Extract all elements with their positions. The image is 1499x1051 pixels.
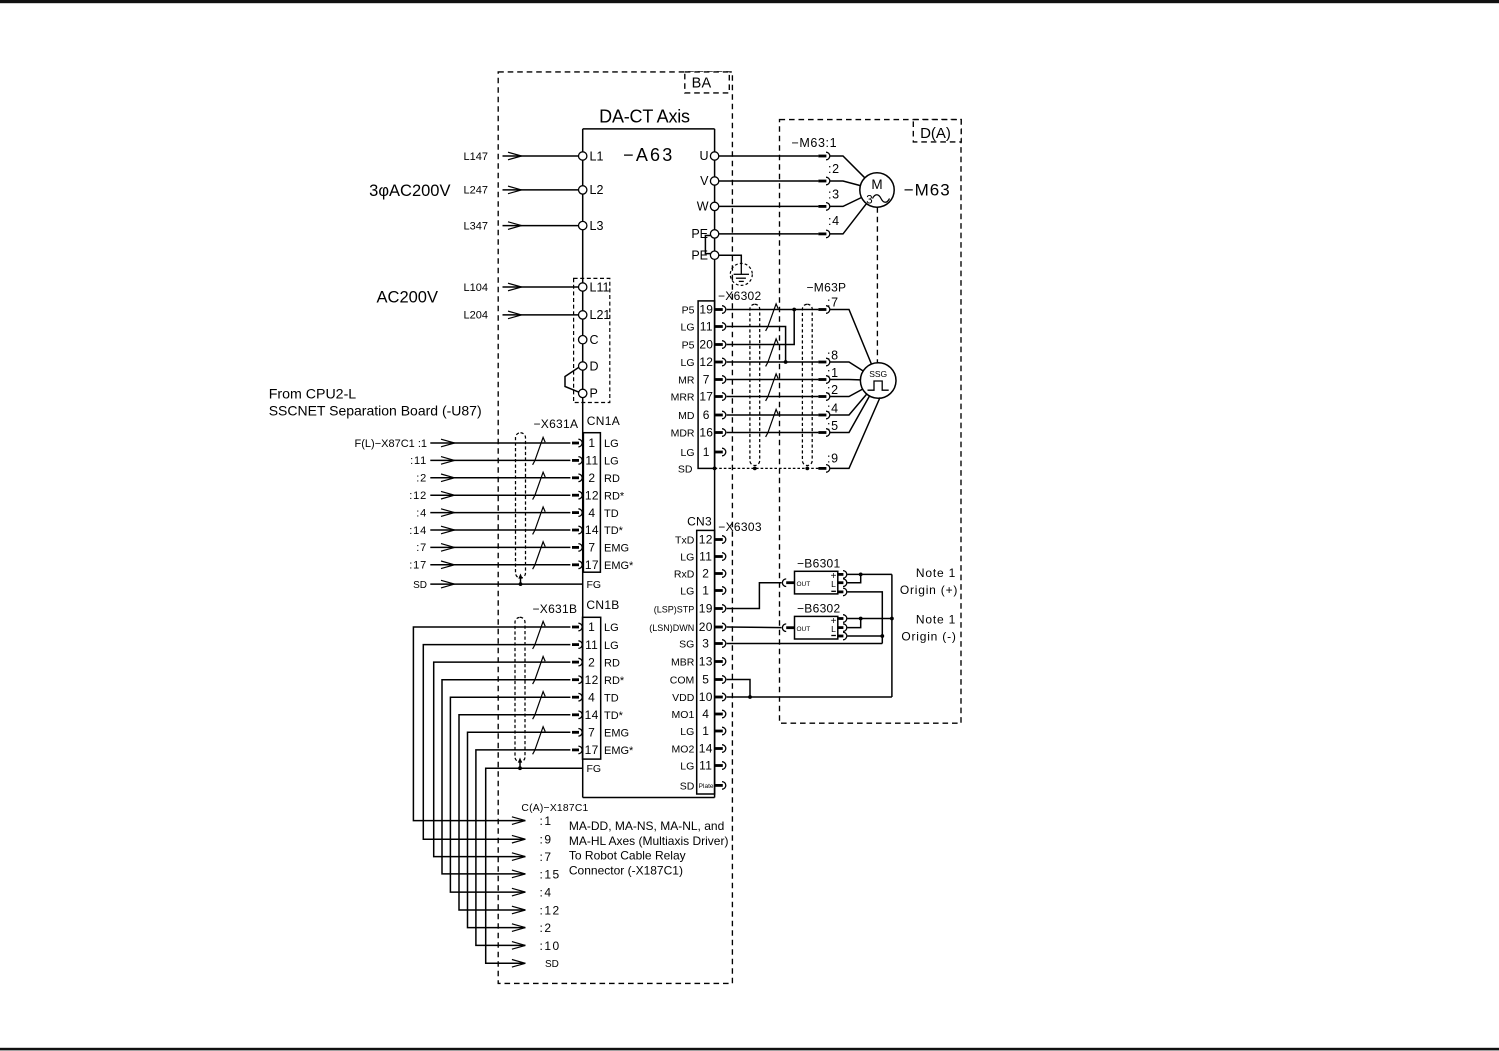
arrowhead relay :10 xyxy=(512,942,526,950)
svg-text:SD: SD xyxy=(545,959,559,970)
svg-text:LG: LG xyxy=(680,761,694,773)
pin number X6303 2 xyxy=(702,567,709,581)
arrowhead L347 xyxy=(508,222,522,230)
twisted pair mark X6302 #2 xyxy=(766,339,779,367)
connector CN1A pin 4 xyxy=(572,509,582,517)
motor label 3 xyxy=(866,195,872,207)
svg-text:LG: LG xyxy=(680,726,694,738)
wire CN1B pin 1 to relay :1 xyxy=(413,627,570,821)
connector X6303 pin 11 xyxy=(715,762,726,770)
label Note 1 (upper) xyxy=(916,566,956,580)
wire motor plug :4 to motor xyxy=(830,204,867,234)
connector X6303 pin 10 xyxy=(715,693,726,701)
label SD input (CN1A) xyxy=(413,580,427,591)
svg-text:2: 2 xyxy=(702,567,709,581)
label motor :4 xyxy=(828,214,840,228)
svg-text:TD: TD xyxy=(604,692,619,704)
svg-text:6: 6 xyxy=(703,408,710,422)
connector X6303 pin 1 xyxy=(715,587,726,595)
pin number CN1B 11 xyxy=(585,638,598,652)
svg-text:COM: COM xyxy=(670,675,695,687)
svg-text:19: 19 xyxy=(699,602,713,616)
arrowhead CN1A :14 xyxy=(441,526,455,534)
ground (protective earth) symbol xyxy=(730,263,752,285)
wire CN1B pin 14 to relay :12 xyxy=(459,715,570,910)
svg-text::9: :9 xyxy=(540,833,553,847)
enclosure D(A) label box xyxy=(913,120,961,142)
wire CN1A pin 17 input xyxy=(430,564,570,566)
label encoder :9 xyxy=(827,451,839,465)
svg-text:−M63P: −M63P xyxy=(807,281,847,295)
pin name X6303 (LSN)DWN xyxy=(649,623,694,633)
connector X6303 pin 1 xyxy=(715,727,726,735)
connector X6302 pin 16 xyxy=(715,429,726,437)
svg-text:12: 12 xyxy=(585,673,599,687)
svg-text:LG: LG xyxy=(680,357,694,369)
pin number X6303 11 xyxy=(699,550,712,564)
terminal U xyxy=(699,149,718,163)
pin number X6303 14 xyxy=(699,742,713,756)
label FG (CN1B) xyxy=(587,763,602,775)
connector X6303 pin 3 xyxy=(715,640,726,648)
pin name X6303 MO1 xyxy=(672,709,695,721)
pin number CN1A 7 xyxy=(588,541,595,555)
svg-text:−X631A: −X631A xyxy=(533,417,578,431)
motor tilde xyxy=(873,195,890,203)
label DA-CT Axis xyxy=(599,107,690,127)
connector X6302 pin 7 xyxy=(715,376,726,384)
svg-text:(LSP)STP: (LSP)STP xyxy=(654,605,695,615)
connector CN1A pin 1 xyxy=(572,439,582,447)
shield CN1B drain to FG xyxy=(518,758,522,771)
svg-text:SD: SD xyxy=(413,580,427,591)
pin name X6302 P5 xyxy=(682,305,695,317)
pin number CN1B 12 xyxy=(585,673,599,687)
wire MRR 17 to encoder :2 xyxy=(727,396,819,398)
connector CN1B pin 2 xyxy=(572,658,582,666)
svg-text:U: U xyxy=(699,149,708,163)
label source :14 xyxy=(409,525,427,537)
pin number CN1A 1 xyxy=(588,436,595,450)
terminal L3 xyxy=(579,219,604,233)
wire CN1A pin 1 input xyxy=(430,442,570,444)
svg-text:4: 4 xyxy=(588,690,595,704)
arrowhead CN1A :12 xyxy=(441,491,455,499)
connector X6302 pin 20 xyxy=(715,341,726,349)
pin number X6302 12 xyxy=(699,355,713,369)
pin number X6303 1 xyxy=(702,584,709,598)
label motor :2 xyxy=(828,162,840,176)
connector B6301 + xyxy=(838,571,847,579)
svg-text:P5: P5 xyxy=(682,340,695,352)
connector X6303 pin 4 xyxy=(715,710,726,718)
arrowhead relay :7 xyxy=(512,853,526,861)
label L347 xyxy=(464,220,488,232)
svg-text::12: :12 xyxy=(540,903,561,917)
arrowhead relay :1 xyxy=(512,817,526,825)
svg-text:EMG*: EMG* xyxy=(604,745,634,757)
wire encoder plug :4 to SSG xyxy=(830,394,867,415)
sensor B6301 pin L label xyxy=(831,579,836,589)
arrowhead relay SD xyxy=(512,960,526,968)
connector X6303 box xyxy=(697,530,715,794)
arrowhead L204 xyxy=(508,311,522,319)
wire P5 20 join xyxy=(727,310,795,345)
pin name CN1B TD xyxy=(604,692,619,704)
label L104 xyxy=(464,282,488,294)
pin name CN1A EMG xyxy=(604,543,629,555)
pin number CN1B 4 xyxy=(588,690,595,704)
sensor B6302 box xyxy=(795,616,838,639)
label Origin (-) xyxy=(901,630,956,644)
svg-text:7: 7 xyxy=(588,541,595,555)
wire CN1A pin 14 input xyxy=(430,529,570,531)
svg-text:MBR: MBR xyxy=(671,657,695,669)
svg-text:4: 4 xyxy=(588,506,595,520)
enclosure BA label box xyxy=(685,72,730,93)
svg-text::4: :4 xyxy=(828,214,840,228)
arrowhead CN1A :17 xyxy=(441,561,455,569)
wire B6301 L to + xyxy=(847,574,861,582)
label relay :7 xyxy=(540,850,553,864)
pin number X6303 11 xyxy=(699,759,712,773)
svg-text:1: 1 xyxy=(703,445,710,459)
svg-text:−A63: −A63 xyxy=(623,145,674,165)
arrowhead CN1A :2 xyxy=(441,474,455,482)
pin name X6302 LG xyxy=(680,322,694,334)
svg-text:2: 2 xyxy=(588,655,595,669)
terminal L21 xyxy=(579,308,611,322)
svg-text:MA-HL Axes (Multiaxis Driver): MA-HL Axes (Multiaxis Driver) xyxy=(569,834,729,848)
encoder label SSG xyxy=(869,369,887,379)
svg-text:1: 1 xyxy=(588,436,595,450)
shield CN1A drain to FG xyxy=(518,574,522,586)
svg-text:RxD: RxD xyxy=(674,569,695,581)
svg-text::7: :7 xyxy=(827,296,839,310)
label source :2 xyxy=(416,473,427,485)
wire U to motor :1 xyxy=(719,155,819,157)
pin name CN1B LG xyxy=(604,640,619,652)
svg-text:LG: LG xyxy=(680,322,694,334)
terminal L11 xyxy=(579,280,610,294)
label C(A)-X187C1 xyxy=(521,803,588,814)
svg-text:MO2: MO2 xyxy=(672,744,695,756)
svg-text:Note 1: Note 1 xyxy=(916,566,956,580)
svg-text:LG: LG xyxy=(680,586,694,598)
svg-text:17: 17 xyxy=(585,743,599,757)
svg-text:C: C xyxy=(590,333,599,347)
wire V to motor :2 xyxy=(719,180,819,182)
arrowhead relay :15 xyxy=(512,870,526,878)
svg-text:RD: RD xyxy=(604,473,620,485)
svg-text:OUT: OUT xyxy=(797,626,811,633)
connector CN1B box xyxy=(583,617,601,759)
svg-text:20: 20 xyxy=(699,620,713,634)
svg-text:CN1A: CN1A xyxy=(587,414,620,428)
arrowhead CN1A :11 xyxy=(441,457,455,465)
terminal L1 xyxy=(579,149,604,163)
pin number X6302 17 xyxy=(699,390,713,404)
sensor B6302 pin - label xyxy=(831,635,836,637)
label encoder :2 xyxy=(827,383,839,397)
wire CN1B pin 12 to relay :15 xyxy=(442,680,570,874)
pin name CN1B EMG xyxy=(604,728,629,740)
wire CN1B pin 4 to relay :4 xyxy=(450,697,570,892)
motor M63 circle xyxy=(860,173,894,207)
svg-text:MA-DD, MA-NS, MA-NL, and: MA-DD, MA-NS, MA-NL, and xyxy=(569,819,724,833)
sensor -B6301 label xyxy=(797,557,841,571)
pin name CN1A EMG* xyxy=(604,560,634,572)
svg-text:−M63:1: −M63:1 xyxy=(792,136,838,150)
svg-text::2: :2 xyxy=(416,473,427,485)
wire power input L247 xyxy=(503,189,579,191)
dashed box control-power terminals L11-P xyxy=(574,278,610,402)
svg-text:(LSN)DWN: (LSN)DWN xyxy=(649,623,694,633)
label relay :1 xyxy=(540,814,553,828)
svg-text:LG: LG xyxy=(604,456,619,468)
wire PE lower to ground xyxy=(719,255,742,263)
svg-text:Origin (-): Origin (-) xyxy=(901,630,956,644)
svg-text:C(A)−X187C1: C(A)−X187C1 xyxy=(521,803,588,814)
wire power input L147 xyxy=(503,155,579,157)
svg-text:−X6302: −X6302 xyxy=(718,289,762,303)
svg-text:L21: L21 xyxy=(590,308,611,322)
svg-text:12: 12 xyxy=(699,533,713,547)
pin name X6302 MRR xyxy=(671,392,695,404)
pin name CN1B LG xyxy=(604,622,619,634)
wire VDD riser to sensors + xyxy=(891,574,893,697)
svg-text:−X6303: −X6303 xyxy=(718,520,762,534)
svg-text:1: 1 xyxy=(702,724,709,738)
pin name X6303 COM xyxy=(670,675,695,687)
svg-text:RD*: RD* xyxy=(604,675,625,687)
svg-text:12: 12 xyxy=(585,488,599,502)
arrowhead CN1A F(L)−X87C1 :1 xyxy=(441,439,455,447)
svg-text:L247: L247 xyxy=(464,185,488,197)
svg-text:TxD: TxD xyxy=(675,535,695,547)
pin name X6303 RxD xyxy=(674,569,695,581)
connector X6303 pin 19 xyxy=(715,605,726,613)
pin name X6303 (LSP)STP xyxy=(654,605,695,615)
svg-text::17: :17 xyxy=(409,560,427,572)
label source F(L)−X87C1 :1 xyxy=(355,438,427,450)
pin name X6303 LG xyxy=(680,726,694,738)
shield X6302 cable inner xyxy=(750,304,760,465)
svg-text:EMG: EMG xyxy=(604,728,629,740)
terminal L2 xyxy=(579,183,604,197)
connector -X6302 label xyxy=(718,289,762,303)
svg-text:11: 11 xyxy=(585,638,598,652)
svg-text:2: 2 xyxy=(588,471,595,485)
wire CN1B pin 11 to relay :9 xyxy=(423,645,570,840)
connector X6302 pin 6 xyxy=(715,411,726,419)
wire CN1B pin 17 to relay :10 xyxy=(476,750,571,946)
connector CN1A pin 11 xyxy=(572,457,582,465)
wire B6301 + net xyxy=(847,573,892,577)
connector CN3 label xyxy=(687,515,712,529)
jumper wire D-P xyxy=(565,367,579,392)
pin number CN1B 14 xyxy=(585,708,599,722)
svg-text:13: 13 xyxy=(699,655,713,669)
svg-text:MD: MD xyxy=(678,410,695,422)
svg-text::11: :11 xyxy=(410,455,427,467)
twisted pair mark CN1B TD/TD* xyxy=(533,692,546,720)
pin name CN1A LG xyxy=(604,456,619,468)
twisted pair mark X6302 #3 xyxy=(766,374,779,401)
svg-text:11: 11 xyxy=(699,759,712,773)
shield CN1A cable xyxy=(516,433,526,578)
svg-text:L204: L204 xyxy=(464,310,488,322)
connector CN1B pin 1 xyxy=(572,623,582,631)
pin name X6302 MR xyxy=(678,375,695,387)
twisted pair mark CN1A EMG/EMG* xyxy=(533,542,546,569)
svg-text:TD*: TD* xyxy=(604,525,624,537)
sensor B6301 pin - label xyxy=(831,590,836,592)
pin name CN1A TD* xyxy=(604,525,624,537)
wire STP 19 to B6301 xyxy=(727,583,782,609)
terminal PE upper xyxy=(691,227,718,241)
wire SD to FG (CN1A) xyxy=(430,583,582,585)
svg-text:F(L)−X87C1 :1: F(L)−X87C1 :1 xyxy=(355,438,427,450)
label encoder :1 xyxy=(827,366,839,380)
svg-text:FG: FG xyxy=(587,763,602,775)
wire COM 5 to VDD xyxy=(727,680,752,699)
svg-text:14: 14 xyxy=(585,523,599,537)
svg-text:OUT: OUT xyxy=(797,581,811,588)
pin name X6302 MDR xyxy=(671,428,695,440)
twisted pair mark CN1B LG/LG xyxy=(533,621,546,649)
svg-text:AC200V: AC200V xyxy=(377,289,438,307)
arrowhead L247 xyxy=(508,186,522,194)
connector X6302 pin 17 xyxy=(715,393,726,401)
label AC200V xyxy=(377,289,438,307)
twisted pair mark CN1B RD/RD* xyxy=(533,657,546,685)
svg-text:MDR: MDR xyxy=(671,428,695,440)
pin number X6302 11 xyxy=(700,320,713,334)
wire B6302 + net xyxy=(847,617,894,621)
sensor B6301 OUT label xyxy=(797,581,811,588)
svg-text:V: V xyxy=(700,174,709,188)
svg-text:3: 3 xyxy=(702,637,709,651)
wire encoder plug :8 to SSG xyxy=(830,362,863,371)
svg-text::8: :8 xyxy=(827,349,839,363)
pin name CN1B TD* xyxy=(604,710,624,722)
wire B6302 L to + xyxy=(847,619,861,628)
wire MD 6 to encoder :4 xyxy=(727,414,819,416)
svg-text:Note 1: Note 1 xyxy=(916,613,956,627)
connector -X631A label xyxy=(533,417,578,431)
connector CN1A pin 7 xyxy=(572,544,582,552)
svg-text::4: :4 xyxy=(416,507,427,519)
label 3phAC200V xyxy=(369,182,450,200)
svg-text:3φAC200V: 3φAC200V xyxy=(369,182,450,200)
pin label Plate xyxy=(699,783,714,790)
svg-text::1: :1 xyxy=(540,814,553,828)
connector X6302 pin 1 xyxy=(715,448,726,456)
svg-text:FG: FG xyxy=(587,579,602,591)
wire power input L347 xyxy=(503,225,579,227)
pin name CN1A RD xyxy=(604,473,620,485)
connector X6303 pin 20 xyxy=(715,623,726,631)
arrowhead CN1A :7 xyxy=(441,544,455,552)
wire CN1B pin 2 to relay :7 xyxy=(434,662,571,857)
connector motor :4 xyxy=(818,230,829,238)
svg-text:L3: L3 xyxy=(590,219,604,233)
svg-text:Plate: Plate xyxy=(699,783,714,790)
wire CN1A pin 7 input xyxy=(430,546,570,548)
wire SD shield (dashed) xyxy=(713,467,819,471)
label FG (CN1A) xyxy=(587,579,602,591)
label Note 1 (lower) xyxy=(916,613,956,627)
connector encoder :9 xyxy=(818,465,829,473)
pin name X6303 LG xyxy=(680,761,694,773)
svg-text:MRR: MRR xyxy=(671,392,695,404)
twisted pair mark X6302 #4 xyxy=(766,409,779,437)
pin name CN1A TD xyxy=(604,508,619,520)
svg-text:MR: MR xyxy=(678,375,695,387)
wire MR 7 to encoder :1 xyxy=(727,379,819,381)
wire encoder plug :7 to SSG xyxy=(830,310,872,365)
connector CN1A pin 14 xyxy=(572,526,582,534)
svg-text:19: 19 xyxy=(699,303,713,317)
label source :17 xyxy=(409,560,427,572)
svg-text::1: :1 xyxy=(827,366,839,380)
wire P5 19 to encoder :7 xyxy=(727,308,819,312)
pin name X6302 MD xyxy=(678,410,695,422)
wire power input L104 xyxy=(503,286,579,288)
connector X6302 pin 11 xyxy=(715,323,726,331)
svg-text:LG: LG xyxy=(604,438,619,450)
encoder pulse symbol xyxy=(868,381,889,390)
pin number X6303 12 xyxy=(699,533,713,547)
svg-text:1: 1 xyxy=(588,620,595,634)
pin number CN1A 12 xyxy=(585,488,599,502)
label -M63P xyxy=(807,281,847,295)
svg-text:LG: LG xyxy=(604,622,619,634)
connector X6303 pin 2 xyxy=(715,570,726,578)
svg-text:CN3: CN3 xyxy=(687,515,712,529)
wire encoder plug :2 to SSG xyxy=(830,389,863,396)
connector B6301 L xyxy=(838,579,847,587)
label encoder :4 xyxy=(827,402,839,416)
svg-text:VDD: VDD xyxy=(672,692,695,704)
connector CN1B label xyxy=(586,598,619,612)
pin name X6303 TxD xyxy=(675,535,695,547)
pin name X6303 MBR xyxy=(671,657,695,669)
connector motor :1 xyxy=(818,152,829,160)
svg-text:17: 17 xyxy=(585,558,599,572)
svg-text:−B6302: −B6302 xyxy=(797,601,841,615)
connector CN1A pin 2 xyxy=(572,474,582,482)
arrowhead L104 xyxy=(508,283,522,291)
svg-text:L147: L147 xyxy=(464,151,488,163)
svg-text::2: :2 xyxy=(827,383,839,397)
pin number CN1B 2 xyxy=(588,655,595,669)
pin number X6303 4 xyxy=(702,707,709,721)
svg-text::2: :2 xyxy=(828,162,840,176)
twisted pair mark CN1B EMG/EMG* xyxy=(533,727,546,755)
label source :11 xyxy=(410,455,427,467)
svg-text:3: 3 xyxy=(866,195,872,207)
connector B6301 - xyxy=(838,588,847,596)
terminal PE lower xyxy=(691,248,718,262)
svg-text:−B6301: −B6301 xyxy=(797,557,841,571)
connector B6302 + xyxy=(838,615,847,623)
wire CN1A pin 2 input xyxy=(430,477,570,479)
svg-text:MO1: MO1 xyxy=(672,709,695,721)
connector X6302 pin 12 xyxy=(715,358,726,366)
label L204 xyxy=(464,310,488,322)
